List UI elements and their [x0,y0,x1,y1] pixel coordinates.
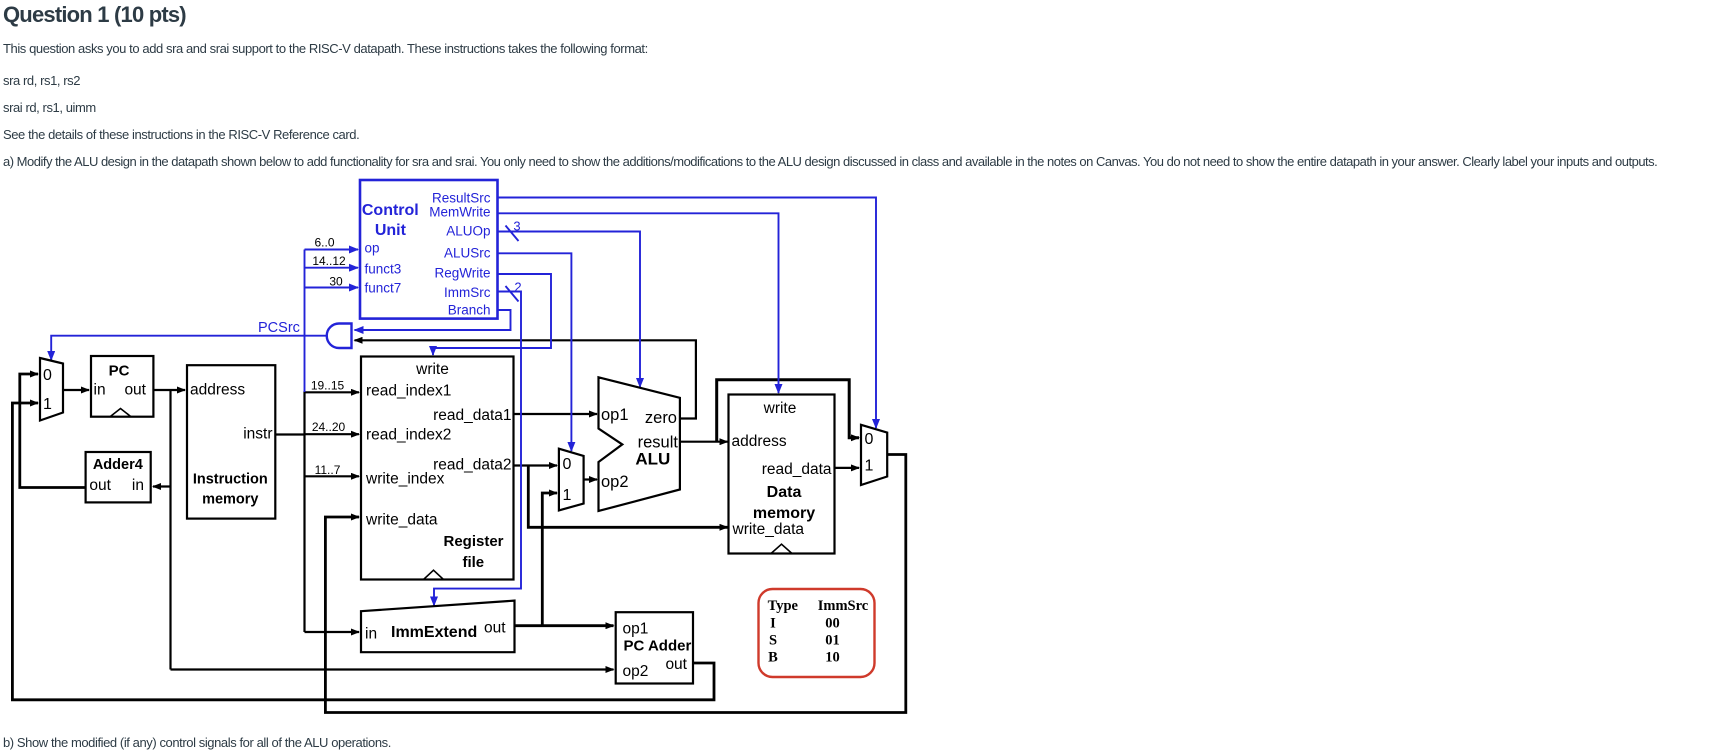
svg-text:Instruction: Instruction [193,472,268,488]
wire: Branch to AND gate input [355,310,511,330]
svg-text:0: 0 [43,367,52,384]
svg-text:read_index2: read_index2 [366,427,451,444]
svg-text:1: 1 [865,458,874,475]
svg-text:0: 0 [865,431,874,448]
svg-text:in: in [94,382,106,399]
svg-text:PC Adder: PC Adder [624,638,692,655]
Register file [361,357,514,580]
svg-text:ResultSrc: ResultSrc [432,191,491,206]
svg-text:30: 30 [329,275,343,289]
svg-text:01: 01 [825,633,840,649]
svg-text:out: out [484,620,506,637]
wire: imm bits to ImmExtend in [305,631,360,633]
heading [3,2,186,28]
svg-text:1: 1 [563,487,572,504]
mux ResultSrc (right mux) [861,425,887,485]
clock wedge of PC [110,409,131,417]
svg-text:Adder4: Adder4 [93,457,143,473]
svg-text:in: in [132,477,144,494]
svg-text:Register: Register [443,533,503,550]
wire: instr bus vertical (black lower part) [303,391,305,632]
wire: bits 14..12 to Control Unit funct3 [305,267,359,269]
svg-text:out: out [665,656,687,673]
svg-text:write: write [763,400,797,417]
svg-text:3: 3 [513,219,520,234]
Control Unit box [360,180,498,319]
svg-text:out: out [89,477,111,494]
svg-text:zero: zero [645,409,677,427]
bus width slash for ALUOp [506,226,519,242]
svg-text:6..0: 6..0 [314,236,334,250]
svg-text:I: I [770,616,776,632]
wire: read_data2 to op2 mux input 0 [514,464,558,466]
Adder4 [86,452,151,502]
svg-text:address: address [190,382,245,399]
svg-text:10: 10 [825,650,840,666]
svg-text:1: 1 [43,396,52,413]
svg-text:ALUOp: ALUOp [446,224,490,239]
ALU U1 [599,377,680,511]
svg-text:address: address [732,433,787,450]
wire: PCSrc from AND gate to PC mux select [51,336,327,360]
svg-text:24..20: 24..20 [312,420,346,434]
wire: Data memory read_data to result mux input 1 [835,467,860,469]
wire: ALU result to Data memory address [680,441,728,443]
wire: read_data1 to ALU op1 [514,413,598,415]
svg-text:in: in [365,626,377,643]
wire: bits 19..15 to read_index1 [305,391,360,393]
svg-text:op2: op2 [601,473,629,491]
svg-text:ALUSrc: ALUSrc [444,246,491,261]
wire: instr from Instruction memory to bus [275,433,305,435]
svg-text:PCSrc: PCSrc [258,320,300,336]
svg-text:19..15: 19..15 [311,379,345,393]
wire: op2 mux out to ALU op2 [584,478,597,480]
wire: into Adder4 in [153,485,171,487]
svg-text:out: out [124,382,146,399]
svg-text:Control: Control [362,202,419,219]
Type/ImmSrc table border [759,589,875,677]
svg-text:memory: memory [202,492,258,508]
paragraph 4 [3,127,359,142]
svg-text:PC: PC [109,363,130,380]
svg-text:op2: op2 [623,663,649,680]
svg-text:write_index: write_index [365,471,445,488]
mux PCSrc (left of PC) [40,358,63,421]
wire: RegWrite to Register file write [433,274,551,355]
wire: ALUSrc to op2 mux select [497,253,571,451]
svg-text:op1: op1 [623,621,649,638]
svg-text:write: write [415,361,449,378]
svg-text:11..7: 11..7 [315,463,341,477]
wire: imm branch up to op2 mux input 1 [542,493,557,626]
wire: ImmExtend out to PC Adder op1 [515,624,614,627]
wire: PC value to PC Adder op2 [171,668,614,670]
svg-text:Branch: Branch [448,303,491,318]
register PC [91,356,153,417]
svg-text:instr: instr [243,426,272,443]
svg-text:Data: Data [767,484,802,501]
wire: ALU zero to AND gate input [355,340,696,418]
wire: Adder4 out wrap to PC mux input 0 [20,374,86,488]
svg-text:write_data: write_data [732,521,805,538]
svg-text:MemWrite: MemWrite [429,205,490,220]
wire: PC mux out to PC in [63,389,89,391]
wire: ALUOp to ALU [497,232,640,388]
bus width slash for ImmSrc [506,286,519,302]
Data memory [729,395,835,554]
paragraph 5 [3,154,1657,169]
svg-text:funct3: funct3 [365,262,402,277]
svg-text:2: 2 [514,280,521,295]
wire: result bypass over Data memory to result mux input 0 [717,380,859,442]
svg-text:memory: memory [753,505,815,522]
clock wedge of Data memory [771,544,792,553]
svg-text:Type: Type [768,598,799,614]
svg-text:ImmExtend: ImmExtend [391,624,477,641]
wire: bits 6..0 to Control Unit op [305,249,359,251]
AND gate (branch and zero) [327,324,352,349]
paragraph 2 [3,73,80,88]
wire: bits 24..20 to read_index2 [305,433,360,435]
svg-text:ImmSrc: ImmSrc [818,598,869,614]
svg-text:RegWrite: RegWrite [434,266,490,281]
wire: ResultSrc to result mux select [497,198,876,429]
wire: read_data2 branch down to Data memory write_data [528,466,727,528]
svg-text:0: 0 [563,456,572,473]
wire: ImmSrc to ImmExtend select [434,292,521,606]
wire: bit 30 to Control Unit funct7 [305,287,359,289]
paragraph 6 [3,735,391,750]
clock wedge of Register file [424,570,444,579]
svg-text:14..12: 14..12 [312,254,346,268]
wire: write-back from result mux to Register file write_data [325,455,905,713]
svg-text:read_data1: read_data1 [433,407,511,424]
wire: PC Adder out wrap to PC mux input 1 [12,403,714,700]
svg-text:file: file [462,554,484,571]
svg-text:ImmSrc: ImmSrc [444,285,491,300]
svg-text:B: B [768,650,778,666]
wire: MemWrite to Data memory write [497,213,779,393]
paragraph 1 [3,41,648,56]
svg-text:write_data: write_data [365,512,438,529]
mux ALUSrc (op2 mux) [559,449,584,511]
PC Adder [616,612,693,683]
svg-text:00: 00 [825,616,840,632]
svg-text:read_data2: read_data2 [433,457,511,474]
svg-text:op1: op1 [601,406,629,424]
svg-text:ALU: ALU [635,450,670,469]
wire: PC junction vertical (PC value down to PC Adder op2) [169,390,171,670]
svg-text:read_data: read_data [762,461,832,478]
svg-text:read_index1: read_index1 [366,383,451,400]
Instruction memory [187,365,275,518]
wire: PC out to Instruction memory address [153,389,185,391]
svg-text:S: S [769,633,777,649]
svg-text:op: op [365,241,380,256]
paragraph 3 [3,100,96,115]
wire: bits 11..7 to write_index [305,475,360,477]
svg-text:funct7: funct7 [365,281,402,296]
wire: instr bus vertical (blue upper part) [304,250,306,393]
ImmExtend [361,601,515,653]
svg-text:Unit: Unit [375,222,407,239]
